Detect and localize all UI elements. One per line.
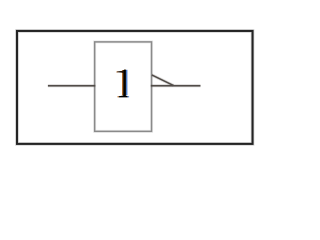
label 1: [117, 69, 130, 97]
block U1 body: [95, 42, 152, 131]
wire left: [48, 84, 96, 87]
switch contact arm: [152, 75, 174, 86]
wire right: [151, 84, 201, 87]
